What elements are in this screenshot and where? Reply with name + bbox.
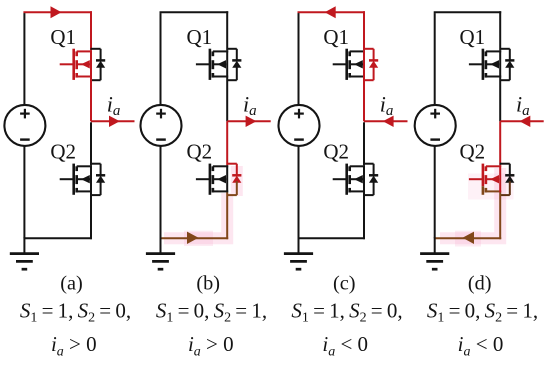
wire: bottom return (b) (161, 237, 229, 239)
wire: output node to Q2 drain (d) (499, 121, 501, 165)
transistor Q1 (b) (196, 49, 228, 80)
highlighted current-path halo (b) (164, 166, 237, 238)
voltage source V (b) (141, 105, 182, 146)
wire: leg top to Q1 drain (a) (90, 11, 92, 50)
wire: left branch lower (b) (160, 146, 162, 238)
body diode of Q2 (a) (91, 164, 106, 195)
svg-text:(c): (c) (333, 272, 356, 294)
wire: Q2 source to bottom return (d) (499, 192, 501, 239)
wire: Q2 source to bottom return (a) (90, 192, 92, 239)
wire: Q2 source to bottom return (c) (363, 192, 365, 239)
body diode of Q2 (d) (500, 164, 515, 195)
svg-text:Q2: Q2 (460, 140, 486, 164)
wire: bottom return (d) (435, 237, 502, 239)
svg-text:(a): (a) (60, 272, 83, 294)
transistor Q2 (a) (60, 164, 92, 195)
wire: output node to Q2 drain (b) (226, 121, 228, 165)
highlight halo patch (b) (184, 231, 213, 246)
wire: Q1 source to output node (d) (499, 78, 501, 122)
svg-text:S1 = 1, S2 = 0,: S1 = 1, S2 = 0, (291, 298, 402, 325)
body diode of Q1 (d) (500, 49, 515, 80)
body diode of Q2 (c) (364, 164, 379, 195)
wire: output node to Q2 drain (a) (90, 122, 92, 165)
wire: output phase lead (a) (91, 120, 135, 122)
wire: output phase lead (d) (500, 120, 544, 122)
current arrow on top bus (c) (325, 6, 336, 18)
wire: top bus (c) (298, 11, 366, 13)
current arrow i_a (d) (520, 116, 531, 127)
ground (c) (298, 237, 300, 252)
wire: leg top to Q1 drain (c) (363, 11, 365, 50)
current arrow on bottom return (b) (187, 232, 199, 244)
wire: top bus (d) (434, 11, 502, 13)
svg-text:(b): (b) (196, 272, 220, 294)
wire: left branch lower (c) (298, 146, 300, 238)
svg-text:Q2: Q2 (50, 140, 76, 164)
wire: output phase lead (c) (364, 120, 408, 122)
transistor Q1 (d) (469, 49, 501, 80)
ground (b) (160, 237, 162, 252)
transistor Q2 (d) (469, 164, 501, 195)
svg-text:(d): (d) (468, 272, 492, 294)
current arrow i_a (a) (109, 116, 120, 127)
svg-text:Q2: Q2 (187, 140, 213, 164)
svg-text:Q2: Q2 (323, 140, 349, 164)
wire: left branch upper (c) (298, 13, 300, 105)
svg-text:Q1: Q1 (323, 25, 349, 49)
current arrow i_a (b) (246, 116, 257, 127)
wire: leg top to Q1 drain (b) (226, 11, 228, 50)
highlight halo patch (d) (455, 231, 481, 247)
wire: Q1 source to output node (c) (363, 78, 365, 122)
wire: leg top to Q1 drain (d) (499, 11, 501, 50)
svg-text:S1 = 0, S2 = 1,: S1 = 0, S2 = 1, (156, 298, 267, 325)
body diode of Q1 (a) (91, 49, 106, 80)
wire: left branch lower (d) (434, 146, 436, 238)
svg-text:Q1: Q1 (50, 25, 76, 49)
svg-text:S1 = 1, S2 = 0,: S1 = 1, S2 = 0, (20, 298, 131, 325)
svg-text:Q1: Q1 (460, 25, 486, 49)
body diode of Q2 (b) (227, 164, 242, 195)
body diode of Q1 (c) (364, 49, 379, 80)
wire: left branch lower (a) (23, 146, 25, 238)
svg-text:S1 = 0, S2 = 1,: S1 = 0, S2 = 1, (427, 298, 538, 325)
wire: Q1 source to output node (b) (226, 78, 228, 122)
transistor Q1 (a) (60, 49, 92, 80)
transistor Q2 (c) (333, 164, 365, 195)
body diode of Q1 (b) (227, 49, 242, 80)
ground (a) (23, 237, 25, 252)
current arrow on top bus (a) (51, 6, 62, 18)
voltage source V (c) (279, 105, 320, 146)
ground (d) (434, 237, 436, 252)
wire: top bus (a) (23, 11, 92, 13)
voltage source V (d) (415, 105, 456, 146)
wire: bottom return (c) (299, 237, 366, 239)
wire: bottom return (a) (24, 237, 92, 239)
current arrow on bottom return (d) (463, 232, 475, 244)
highlighted current-path halo (d) (440, 168, 500, 238)
svg-text:Q1: Q1 (187, 25, 213, 49)
transistor Q2 (b) (196, 164, 228, 195)
highlight halo patch (d) (468, 174, 514, 200)
current arrow i_a (c) (383, 116, 394, 127)
wire: output node to Q2 drain (c) (363, 122, 365, 165)
wire: Q2 source to bottom return (b) (226, 192, 228, 239)
wire: Q1 source to output node (a) (90, 78, 92, 122)
wire: output phase lead (b) (227, 120, 271, 122)
wire: left branch upper (a) (23, 13, 25, 105)
transistor Q1 (c) (333, 49, 365, 80)
voltage source V (a) (4, 105, 45, 146)
wire: left branch upper (d) (434, 13, 436, 105)
wire: left branch upper (b) (160, 13, 162, 105)
wire: top bus (b) (160, 11, 229, 13)
